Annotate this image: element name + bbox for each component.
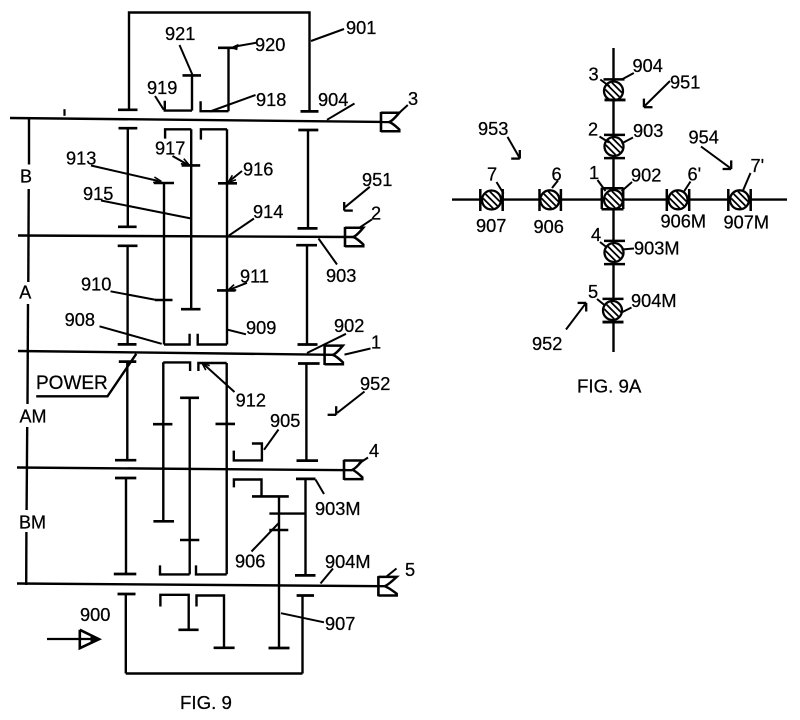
cap under collar 906 — [252, 495, 289, 498]
arrow head of shaft 2 (output 2) — [345, 228, 363, 247]
cap top of sun line AM — [180, 396, 199, 399]
svg-text:900: 900 — [80, 605, 110, 625]
leader 2 node — [600, 137, 610, 143]
svg-text:902: 902 — [631, 166, 661, 186]
leader line POWER — [36, 354, 136, 397]
leader 1 input — [345, 349, 371, 355]
svg-text:FIG. 9A: FIG. 9A — [577, 376, 642, 397]
housing bracket vertical segment AM-BM — [25, 427, 28, 510]
svg-text:954: 954 — [689, 128, 719, 148]
leader 954 — [701, 147, 730, 168]
cap bottom of collar left x189 — [178, 628, 198, 631]
leader 952 fig9a — [566, 304, 585, 329]
tick on carrier x227 AM — [216, 423, 236, 426]
leader 5 node — [597, 299, 605, 306]
svg-text:909: 909 — [246, 318, 276, 338]
svg-text:951: 951 — [670, 73, 700, 93]
tick 911 on carrier line — [217, 289, 236, 292]
leader 1 node — [598, 180, 606, 191]
node 907M (7') — [730, 190, 749, 209]
svg-text:905: 905 — [270, 411, 300, 431]
leader 901 — [311, 29, 344, 41]
svg-text:916: 916 — [243, 160, 273, 180]
svg-text:910: 910 — [81, 274, 111, 294]
cap bottom of gear line B left — [118, 225, 137, 228]
leader 7 node — [497, 182, 504, 194]
cap top of housing 900 left leg — [118, 593, 136, 596]
leader 909 — [227, 330, 246, 335]
svg-text:901: 901 — [346, 18, 376, 38]
collar right above shaft 5 — [196, 565, 227, 574]
cap bottom of sun line 915 — [181, 308, 201, 311]
leader 904M fig9a — [621, 308, 632, 314]
leader 905 — [264, 430, 279, 450]
carrier line x227 AM — [225, 363, 227, 574]
node 906 (6) — [540, 190, 559, 209]
node 904 (3) — [604, 82, 623, 101]
housing bracket vertical segment B-A — [27, 189, 30, 282]
svg-text:903: 903 — [326, 266, 356, 286]
collar right below shaft 5 — [197, 596, 225, 648]
shaft 3 — [10, 118, 389, 122]
leader 916 — [230, 171, 242, 181]
coupling bar 906 to gear line — [269, 512, 305, 514]
svg-text:4: 4 — [591, 225, 601, 245]
gear line A right — [306, 245, 308, 344]
node 906M (6') — [669, 190, 688, 209]
svg-text:912: 912 — [236, 390, 266, 410]
housing 900 bottom line — [126, 672, 303, 674]
collar left above shaft 5 — [160, 565, 190, 574]
collar left below shaft 1 — [163, 362, 190, 371]
svg-text:906: 906 — [235, 551, 265, 571]
housing 900 right leg — [301, 596, 303, 674]
cap top of gear line A right — [296, 244, 317, 247]
cap top of gear line AM left — [119, 360, 137, 363]
arrow head of shaft 5 (output 5) — [378, 577, 396, 596]
leader 4 output — [359, 458, 369, 464]
leader 907 fig9 — [281, 613, 324, 622]
svg-text:907: 907 — [476, 216, 506, 236]
housing bracket vertical segment B — [28, 119, 30, 165]
housing bracket vertical segment A-AM — [26, 304, 29, 404]
svg-text:4: 4 — [369, 441, 379, 461]
housing bracket vertical segment BM-end — [25, 532, 28, 585]
leader 911 — [230, 283, 247, 290]
leader 913 — [91, 166, 159, 182]
gear line B right — [307, 130, 309, 228]
svg-text:903M: 903M — [315, 499, 361, 519]
svg-text:B: B — [20, 166, 32, 186]
svg-text:3: 3 — [589, 65, 599, 85]
arrow head of shaft 4 (output 4) — [344, 461, 362, 480]
leader 917 — [173, 156, 188, 164]
node 907 (7) — [482, 191, 501, 210]
lever diagram vertical line — [612, 48, 614, 352]
leader 920 — [235, 43, 256, 47]
gear line BM right — [304, 479, 306, 576]
svg-text:914: 914 — [253, 202, 283, 222]
cap on box 901 left leg — [118, 108, 138, 111]
collar right below shaft 1 — [198, 363, 226, 371]
svg-text:918: 918 — [256, 90, 286, 110]
svg-text:BM: BM — [19, 513, 46, 533]
svg-text:906: 906 — [534, 217, 564, 237]
collar left below shaft 3 — [165, 129, 191, 138]
svg-text:952: 952 — [532, 334, 562, 354]
collar 906 below shaft 4 — [234, 480, 262, 497]
leader 903 fig9 — [319, 239, 338, 265]
svg-text:903M: 903M — [634, 239, 680, 259]
svg-text:5: 5 — [405, 560, 415, 580]
svg-text:POWER: POWER — [36, 373, 108, 394]
leader 951 fig9a — [645, 81, 670, 106]
tick 913 on member x164 — [154, 182, 174, 185]
svg-text:907: 907 — [325, 614, 355, 634]
leader 3 node — [600, 80, 609, 87]
lever diagram horizontal line — [452, 198, 787, 200]
leader 951 fig9 — [345, 187, 370, 207]
cap top of gear line BM left — [115, 477, 136, 480]
cap top of gear line B right — [298, 129, 318, 132]
leader 908 — [100, 326, 162, 344]
cap bottom of member x279 — [269, 647, 290, 650]
leader 921 — [180, 45, 193, 75]
svg-text:AM: AM — [20, 407, 47, 427]
clutch bracket 905 — [234, 444, 262, 461]
cap top of gear line BM right — [296, 478, 316, 481]
member line x279 — [278, 496, 280, 648]
svg-text:952: 952 — [360, 374, 390, 394]
leader 4 node — [600, 242, 607, 248]
leader 910 — [111, 291, 157, 300]
tick on sun line AM — [180, 539, 199, 542]
leader 953 — [508, 137, 520, 157]
node 903 (2) — [605, 137, 624, 156]
shaft 4 — [17, 468, 352, 471]
svg-text:919: 919 — [147, 78, 177, 98]
collar left below shaft 5 — [160, 595, 188, 630]
svg-text:904: 904 — [318, 90, 348, 110]
leader 904 fig9 — [327, 104, 355, 120]
arrow head of shaft 1 (input 1) — [325, 346, 343, 365]
svg-text:907M: 907M — [724, 212, 770, 232]
cap top of gear line A left — [118, 244, 138, 247]
svg-text:904: 904 — [633, 56, 663, 76]
housing box 901 outline — [129, 13, 310, 111]
svg-text:2: 2 — [371, 203, 381, 223]
tick 917 on sun line — [182, 164, 201, 167]
tick 916 on carrier line — [218, 182, 237, 185]
leader 3 output — [399, 105, 408, 113]
svg-text:7: 7 — [487, 164, 497, 184]
svg-text:921: 921 — [165, 24, 195, 44]
cap on box 901 right leg — [301, 110, 319, 113]
leader 902 fig9 — [307, 334, 346, 353]
svg-text:903: 903 — [633, 121, 663, 141]
cap bottom of gear line A right — [298, 343, 318, 346]
member line x163 AM — [162, 362, 164, 521]
leader 903M fig9a — [622, 249, 635, 250]
leader 903M fig9 — [316, 480, 325, 495]
gear line AM right — [305, 364, 307, 461]
leader 912 — [204, 364, 235, 392]
tick 910 on member x164 — [155, 299, 173, 302]
housing 900 left leg — [125, 594, 127, 674]
clutch element 921 — [183, 74, 202, 77]
leader 6 node — [552, 181, 558, 189]
svg-text:2: 2 — [588, 120, 598, 140]
collar right below shaft 3 — [201, 129, 227, 139]
svg-text:902: 902 — [334, 316, 364, 336]
leader 5 output — [387, 569, 397, 577]
leader 903 fig9a — [622, 138, 634, 144]
svg-text:7': 7' — [751, 156, 765, 176]
cap bottom of gear line BM left — [114, 573, 137, 576]
leader 904M fig9 — [321, 569, 334, 584]
leader 952 fig9 — [337, 392, 364, 413]
shaft 2 — [18, 236, 353, 238]
svg-text:917: 917 — [155, 139, 185, 159]
cap bottom of member x163 — [153, 520, 174, 523]
cap bottom of gear line AM left — [115, 459, 136, 462]
leader 2 output — [359, 219, 372, 228]
svg-text:951: 951 — [362, 170, 392, 190]
cap top of gear line AM right — [298, 362, 320, 365]
member line x164 — [163, 183, 165, 345]
input arrow 900 — [47, 638, 97, 640]
svg-text:920: 920 — [255, 35, 285, 55]
tick on member x279 — [269, 529, 288, 532]
collar 909 above shaft 1 — [198, 334, 227, 345]
node 903M (4) — [605, 243, 624, 262]
sun line 915 vertical — [190, 129, 192, 309]
leader 914 — [229, 219, 254, 236]
cap top of housing 900 right leg — [297, 594, 314, 597]
leader 6' node — [684, 182, 691, 192]
leader 919 — [155, 96, 164, 110]
svg-text:FIG. 9: FIG. 9 — [180, 692, 232, 713]
cap bottom of gear line BM right — [295, 574, 316, 577]
clutch element 920 — [218, 46, 238, 49]
svg-text:953: 953 — [478, 119, 508, 139]
shaft 5 — [17, 584, 384, 587]
leader 904 fig9a — [622, 73, 634, 79]
svg-text:915: 915 — [83, 184, 113, 204]
carrier line right x227 — [226, 129, 228, 344]
tick on member x163 AM — [153, 423, 172, 426]
svg-text:906M: 906M — [661, 212, 707, 232]
leader 902 fig9a — [622, 182, 633, 191]
cap bottom of gear line B right — [298, 227, 318, 230]
svg-text:5: 5 — [588, 282, 598, 302]
cap bottom of gear line A left — [118, 343, 137, 346]
svg-text:904M: 904M — [631, 291, 677, 311]
node 902 (1) — [604, 190, 623, 209]
leader 906 — [252, 523, 279, 552]
svg-text:3: 3 — [408, 89, 418, 109]
arrow head of shaft 3 (output 3) — [381, 113, 399, 132]
leader 7' node — [743, 173, 751, 191]
svg-text:A: A — [19, 283, 31, 303]
gear line A left — [126, 246, 128, 345]
node 904M (5) — [603, 301, 622, 320]
gear line BM left — [125, 478, 127, 574]
collar 908 above shaft 1 — [164, 334, 190, 345]
housing tick above shaft 3 — [63, 109, 65, 116]
leader 915 — [101, 201, 191, 219]
sun line AM x190 — [188, 398, 190, 575]
cap bottom of collar right x224 — [214, 646, 235, 649]
leader 918 — [210, 95, 256, 112]
svg-text:1: 1 — [371, 333, 381, 353]
gear line AM left — [126, 362, 128, 461]
gear line B left — [127, 128, 129, 227]
svg-text:908: 908 — [65, 310, 95, 330]
cap top of gear line B left — [119, 127, 138, 130]
cap bottom of gear line AM right — [297, 459, 319, 462]
shaft 1 — [18, 351, 333, 355]
